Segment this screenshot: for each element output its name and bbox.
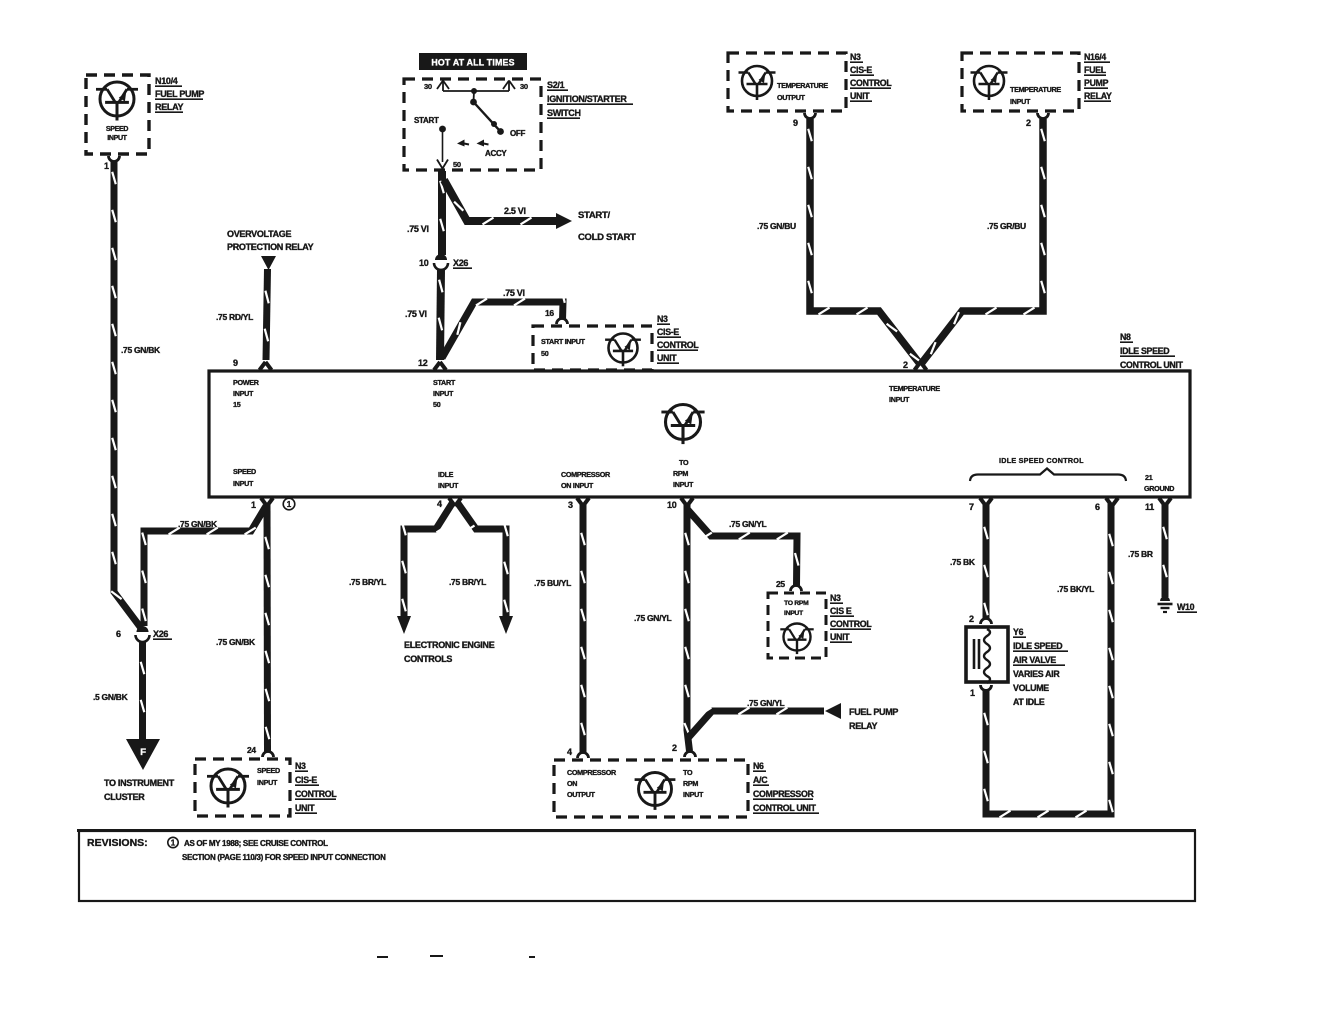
- wire label .75 BU/YL: [534, 578, 571, 588]
- wire .75 GN/BU from N3 pin 9 to idle control unit pin 2: [808, 119, 920, 364]
- svg-text:RPM: RPM: [673, 469, 688, 478]
- wire .75 BU/YL from pin 3 to N6 pin 4: [581, 503, 585, 753]
- svg-text:INPUT: INPUT: [233, 389, 254, 398]
- svg-text:2.5 VI: 2.5 VI: [504, 206, 526, 216]
- S2/1 internal wire bus: [443, 90, 509, 92]
- connector label X26: [453, 258, 472, 268]
- ground label W10: [1177, 602, 1197, 612]
- N3 speed input terminal label: [257, 766, 280, 787]
- wire .75 BR/YL right from pin 4: [457, 502, 508, 617]
- S2/1 terminal 30 arrow left: [437, 81, 449, 92]
- svg-text:X26: X26: [453, 258, 468, 268]
- svg-text:SPEED: SPEED: [257, 766, 280, 775]
- svg-text:START/: START/: [578, 210, 610, 221]
- svg-text:ON INPUT: ON INPUT: [561, 481, 594, 490]
- svg-text:N8: N8: [1120, 332, 1131, 342]
- svg-text:COMPRESSOR: COMPRESSOR: [567, 768, 617, 777]
- svg-text:N3: N3: [850, 52, 861, 62]
- N3 start input terminal label: [541, 337, 586, 358]
- wire label .75 BR/YL right: [449, 577, 486, 587]
- arrow F to instrument cluster: [126, 739, 160, 770]
- svg-text:INPUT: INPUT: [1010, 97, 1031, 106]
- svg-text:START INPUT: START INPUT: [541, 337, 586, 346]
- svg-text:16: 16: [545, 308, 554, 318]
- svg-text:SPEED: SPEED: [233, 467, 256, 476]
- wire .75 BR from pin 11 to ground W10: [1163, 503, 1167, 597]
- svg-text:OFF: OFF: [510, 129, 526, 138]
- svg-text:X26: X26: [153, 629, 168, 639]
- control unit N3 CIS-E temperature output (dashed box): [728, 53, 846, 111]
- X26 lower pin label 6: [116, 629, 121, 639]
- svg-text:INPUT: INPUT: [784, 610, 804, 617]
- svg-text:N10/4: N10/4: [155, 76, 178, 86]
- control unit N3 CIS-E rpm input (dashed box): [768, 593, 826, 658]
- connector label X26 lower: [153, 629, 172, 639]
- svg-text:IGNITION/STARTER: IGNITION/STARTER: [547, 94, 627, 104]
- svg-text:.75 BK/YL: .75 BK/YL: [1057, 584, 1094, 594]
- svg-text:.75 GN/BK: .75 GN/BK: [178, 519, 218, 529]
- N3 speed input internal symbol: [207, 769, 249, 808]
- wire .75 BK/YL loop from Y6 pin 1 to pin 6: [984, 503, 1113, 817]
- wire label .75 GN/YL fuel pump: [747, 698, 785, 708]
- node label OVERVOLTAGE PROTECTION RELAY: [227, 229, 314, 252]
- Y6 armature bars: [974, 639, 979, 669]
- svg-text:PROTECTION RELAY: PROTECTION RELAY: [227, 242, 314, 252]
- control unit N3 CIS-E start input (dashed box): [533, 326, 652, 370]
- svg-text:COMPRESSOR: COMPRESSOR: [561, 470, 611, 479]
- N3 temperature output terminal label: [777, 81, 828, 102]
- svg-text:.75 GN/BK: .75 GN/BK: [121, 345, 161, 355]
- arrow right to electronic engine controls: [499, 616, 513, 634]
- svg-text:N3: N3: [295, 761, 306, 771]
- svg-text:N6: N6: [753, 761, 764, 771]
- wire label .75 BK/YL: [1057, 584, 1094, 594]
- svg-text:.75 GN/YL: .75 GN/YL: [747, 698, 785, 708]
- svg-text:INPUT: INPUT: [257, 778, 278, 787]
- wire label .75 VI lower: [405, 309, 427, 319]
- N8 terminal label 21 GROUND: [1144, 473, 1174, 493]
- svg-text:COLD START: COLD START: [578, 232, 636, 243]
- pin 7 of N8 (idle speed control): [969, 498, 992, 512]
- svg-text:UNIT: UNIT: [850, 91, 870, 101]
- svg-text:RELAY: RELAY: [849, 721, 877, 731]
- svg-text:TO INSTRUMENT: TO INSTRUMENT: [104, 778, 175, 788]
- control unit N8 idle speed control unit (main box): [209, 371, 1190, 497]
- svg-text:1: 1: [287, 500, 292, 509]
- pin 9 of N3 temperature output: [793, 113, 816, 128]
- svg-text:TEMPERATURE: TEMPERATURE: [889, 384, 940, 393]
- node label ELECTRONIC ENGINE CONTROLS: [404, 640, 495, 664]
- svg-text:1: 1: [970, 688, 975, 698]
- svg-text:COMPRESSOR: COMPRESSOR: [753, 789, 814, 799]
- svg-text:PUMP: PUMP: [1084, 78, 1109, 88]
- svg-text:ON: ON: [567, 779, 577, 788]
- wire label .75 RD/YL: [216, 312, 253, 322]
- pin 10 of N8 (to rpm input): [667, 498, 693, 510]
- wire .75 GN/BK from pin 1 to N3 pin 24: [265, 503, 269, 752]
- svg-text:GROUND: GROUND: [1144, 484, 1174, 493]
- wire label .75 GN/BK branch: [178, 519, 218, 529]
- wire label .75 GN/BK to pin 24: [216, 637, 256, 647]
- N3 temperature output internal symbol: [739, 66, 776, 100]
- Y6 coil winding: [984, 629, 990, 683]
- svg-text:INPUT: INPUT: [683, 790, 704, 799]
- node label START/COLD START: [578, 210, 636, 243]
- svg-text:RELAY: RELAY: [1084, 91, 1112, 101]
- wire label .75 VI branch: [503, 288, 525, 298]
- svg-text:9: 9: [793, 118, 798, 128]
- pin 25 of N3 rpm input: [776, 579, 802, 591]
- N8 terminal label SPEED INPUT: [233, 467, 256, 488]
- svg-text:OVERVOLTAGE: OVERVOLTAGE: [227, 229, 292, 239]
- node label FUEL PUMP RELAY: [849, 707, 898, 731]
- N6 terminal label COMPRESSOR ON OUTPUT: [567, 768, 617, 799]
- svg-text:CONTROL: CONTROL: [657, 340, 699, 350]
- N8 terminal label COMPRESSOR ON INPUT: [561, 470, 611, 490]
- svg-text:.75 GN/BU: .75 GN/BU: [757, 221, 796, 231]
- svg-text:11: 11: [1145, 502, 1154, 512]
- wire branch .75 GN/YL to N3 pin 25: [688, 510, 799, 586]
- arrow from fuel pump relay: [825, 703, 841, 719]
- svg-text:2: 2: [903, 360, 908, 370]
- wire .75 RD/YL to control unit pin 9: [265, 269, 269, 360]
- svg-text:CIS-E: CIS-E: [657, 327, 679, 337]
- wire .5 GN/BK from X26 to instrument cluster: [141, 642, 145, 740]
- wire stem into pin 9: [0, 0, 1, 1]
- wire .75 GN/YL from pin 10 to N6 pin 2: [684, 503, 689, 751]
- relay N10/4 fuel pump relay (dashed box): [86, 75, 149, 154]
- svg-text:.75 BR: .75 BR: [1128, 549, 1153, 559]
- svg-text:REVISIONS:: REVISIONS:: [87, 837, 148, 849]
- svg-text:.75 VI: .75 VI: [405, 309, 427, 319]
- svg-text:N3: N3: [830, 593, 841, 603]
- svg-text:.5 GN/BK: .5 GN/BK: [93, 692, 129, 702]
- wire label .5 GN/BK: [93, 692, 129, 702]
- switch S2/1 ignition/starter switch (dashed box): [404, 79, 541, 170]
- S2/1 rotor contact: [470, 88, 504, 135]
- S2/1 ACCY contact marks: [457, 140, 489, 147]
- pin 2 of N6: [672, 743, 696, 757]
- svg-text:POWER: POWER: [233, 378, 260, 387]
- svg-text:.75 BU/YL: .75 BU/YL: [534, 578, 571, 588]
- N8 terminal label POWER INPUT 15: [233, 378, 260, 409]
- S2/1 label 30 right: [520, 82, 528, 91]
- power label HOT AT ALL TIMES: [419, 53, 527, 70]
- svg-text:IDLE: IDLE: [438, 470, 454, 479]
- svg-text:6: 6: [116, 629, 121, 639]
- svg-text:INPUT: INPUT: [107, 135, 128, 142]
- pin 1 of N10/4: [104, 156, 120, 171]
- svg-text:CLUSTER: CLUSTER: [104, 792, 145, 802]
- svg-text:VARIES AIR: VARIES AIR: [1013, 669, 1060, 679]
- connector X26 on start wire: [434, 254, 448, 270]
- svg-text:N16/4: N16/4: [1084, 52, 1106, 62]
- svg-text:1: 1: [251, 500, 256, 510]
- pin 3 of N8 (compressor on input): [568, 498, 589, 510]
- svg-text:TEMPERATURE: TEMPERATURE: [1010, 85, 1061, 94]
- svg-text:4: 4: [567, 747, 572, 757]
- svg-text:30: 30: [424, 82, 432, 91]
- relay N16/4 temperature input (dashed box): [962, 53, 1079, 111]
- pin 2 of N8 (temperature input): [903, 360, 927, 370]
- N8 label IDLE SPEED CONTROL with brace: [970, 456, 1126, 481]
- wire label .75 BK: [950, 557, 976, 567]
- svg-text:.75 GN/BK: .75 GN/BK: [216, 637, 256, 647]
- wire .75 GN/BK branch from pin 1 to X26: [142, 506, 266, 626]
- svg-text:.75 VI: .75 VI: [407, 224, 429, 234]
- svg-text:TO RPM: TO RPM: [784, 600, 809, 607]
- valve Y6 idle speed air valve (box): [966, 627, 1008, 682]
- svg-text:VOLUME: VOLUME: [1013, 683, 1049, 693]
- pin 6 of N8 (idle speed control): [1095, 498, 1118, 512]
- wire .75 BK from pin 7 to Y6 pin 2: [984, 503, 988, 620]
- svg-text:4: 4: [437, 499, 442, 509]
- svg-text:2: 2: [1026, 118, 1031, 128]
- N8 terminal label TO RPM INPUT: [673, 458, 694, 489]
- svg-text:HOT AT ALL TIMES: HOT AT ALL TIMES: [431, 58, 514, 68]
- label Y6 IDLE SPEED AIR VALVE: [1013, 627, 1068, 707]
- arrow from overvoltage protection relay: [261, 256, 276, 270]
- S2/1 label 50: [453, 160, 461, 169]
- svg-text:INPUT: INPUT: [438, 481, 459, 490]
- svg-text:CIS-E: CIS-E: [295, 775, 317, 785]
- svg-text:UNIT: UNIT: [657, 353, 677, 363]
- S2/1 label ACCY: [485, 149, 507, 158]
- ground W10: [1158, 596, 1173, 612]
- wire label .75 BR/YL left: [349, 577, 386, 587]
- svg-text:FUEL: FUEL: [1084, 65, 1107, 75]
- svg-text:30: 30: [520, 82, 528, 91]
- svg-text:2: 2: [672, 743, 677, 753]
- pin 2 of N16/4: [1026, 113, 1049, 128]
- svg-text:OUTPUT: OUTPUT: [777, 93, 806, 102]
- label N3 CIS-E CONTROL UNIT (speed input): [295, 761, 337, 813]
- wire label .75 BR: [1128, 549, 1153, 559]
- pin 24 of N3 speed input: [247, 745, 274, 757]
- wire label .75 GN/BU: [757, 221, 796, 231]
- wire .75 VI from X26 to control unit pin 12: [439, 270, 443, 360]
- svg-text:.75 VI: .75 VI: [503, 288, 525, 298]
- svg-text:.75 BR/YL: .75 BR/YL: [449, 577, 486, 587]
- svg-text:TEMPERATURE: TEMPERATURE: [777, 81, 828, 90]
- svg-text:W10: W10: [1177, 602, 1195, 612]
- svg-text:SPEED: SPEED: [106, 126, 128, 133]
- svg-text:AIR VALVE: AIR VALVE: [1013, 655, 1056, 665]
- svg-text:ACCY: ACCY: [485, 149, 507, 158]
- wire .75 VI from S2/1 terminal 50 to X26: [440, 171, 444, 255]
- N3 rpm input internal symbol: [780, 624, 813, 655]
- svg-text:50: 50: [433, 400, 441, 409]
- wire label .75 GN/YL main: [634, 613, 672, 623]
- N8 dashed top-right edge detail: [1113, 370, 1188, 373]
- svg-text:N3: N3: [657, 314, 668, 324]
- svg-text:.75 GR/BU: .75 GR/BU: [987, 221, 1026, 231]
- svg-text:IDLE SPEED: IDLE SPEED: [1013, 641, 1062, 651]
- svg-text:FUEL PUMP: FUEL PUMP: [155, 89, 204, 99]
- svg-text:IDLE SPEED CONTROL: IDLE SPEED CONTROL: [999, 456, 1084, 465]
- relay N10/4 label N10/4 FUEL PUMP RELAY: [155, 76, 204, 112]
- S2/1 wire start contact to terminal 50: [437, 131, 448, 169]
- svg-text:INPUT: INPUT: [233, 479, 254, 488]
- pin 4 of N6: [567, 747, 589, 758]
- pin 12 of N8 (start input): [418, 358, 446, 370]
- svg-text:START: START: [433, 378, 456, 387]
- S2/1 label S2/1 IGNITION/STARTER SWITCH: [547, 80, 633, 118]
- svg-text:15: 15: [233, 400, 241, 409]
- svg-text:UNIT: UNIT: [295, 803, 315, 813]
- svg-text:2: 2: [969, 614, 974, 624]
- svg-text:50: 50: [541, 349, 549, 358]
- svg-text:INPUT: INPUT: [889, 395, 910, 404]
- relay N10/4 terminal label SPEED INPUT: [106, 126, 128, 142]
- pin 1 of Y6: [970, 685, 992, 698]
- svg-text:CIS-E: CIS-E: [850, 65, 872, 75]
- wire label .75 VI upper: [407, 224, 429, 234]
- svg-text:.75 RD/YL: .75 RD/YL: [216, 312, 253, 322]
- N16/4 temperature input internal symbol: [971, 66, 1008, 100]
- svg-text:7: 7: [969, 502, 974, 512]
- svg-text:SWITCH: SWITCH: [547, 108, 581, 118]
- svg-text:CONTROL UNIT: CONTROL UNIT: [753, 803, 817, 813]
- pin 11 of N8 (ground): [1145, 498, 1171, 512]
- wire branch .75 GN/YL from fuel pump relay: [688, 708, 824, 738]
- S2/1 START contact dot: [439, 126, 446, 133]
- N8 terminal label TEMPERATURE INPUT: [889, 384, 940, 404]
- svg-text:9: 9: [233, 358, 238, 368]
- arrow left to electronic engine controls: [397, 616, 411, 634]
- svg-text:21: 21: [1145, 473, 1153, 482]
- N8 terminal label START INPUT 50: [433, 378, 456, 409]
- svg-text:TO: TO: [679, 458, 689, 467]
- svg-text:INPUT: INPUT: [433, 389, 454, 398]
- svg-text:CONTROL: CONTROL: [850, 78, 892, 88]
- svg-text:ELECTRONIC ENGINE: ELECTRONIC ENGINE: [404, 640, 495, 650]
- label N3 CIS-E CONTROL UNIT (temperature output): [850, 52, 892, 101]
- wire branch .75 VI to N3 start input pin 16: [442, 290, 565, 358]
- wire .75 GR/BU from N16/4 pin 2 to idle control unit pin 2: [921, 119, 1045, 364]
- wire .75 BR/YL left from pin 4: [402, 502, 453, 617]
- svg-text:INPUT: INPUT: [673, 480, 694, 489]
- wire label 2.5 VI: [504, 206, 526, 216]
- svg-text:.75 GN/YL: .75 GN/YL: [634, 613, 672, 623]
- wire label .75 GR/BU: [987, 221, 1026, 231]
- N16/4 temperature input terminal label: [1010, 85, 1061, 106]
- label N3 CIS-E CONTROL UNIT (start input): [657, 314, 699, 363]
- X26 pin label 10: [419, 258, 429, 268]
- svg-text:.75 BK: .75 BK: [950, 557, 976, 567]
- label N8 IDLE SPEED CONTROL UNIT: [1120, 332, 1190, 370]
- svg-text:1: 1: [104, 161, 109, 171]
- svg-text:CONTROL: CONTROL: [830, 619, 872, 629]
- control unit N6 A/C compressor control unit (dashed box): [554, 760, 748, 817]
- svg-text:S2/1: S2/1: [547, 80, 565, 90]
- svg-text:24: 24: [247, 745, 256, 755]
- pin 2 of Y6: [969, 614, 992, 624]
- svg-text:50: 50: [453, 160, 461, 169]
- svg-text:FUEL PUMP: FUEL PUMP: [849, 707, 898, 717]
- pin 1 of N8 (speed input): [251, 498, 273, 510]
- svg-text:UNIT: UNIT: [830, 632, 850, 642]
- svg-text:SECTION (PAGE 110/3) FOR SPEED: SECTION (PAGE 110/3) FOR SPEED INPUT CON…: [182, 853, 386, 862]
- S2/1 label START: [414, 116, 439, 125]
- svg-text:1: 1: [171, 839, 176, 848]
- N6 internal symbol: [635, 773, 676, 810]
- svg-text:TO: TO: [683, 768, 693, 777]
- svg-text:CIS E: CIS E: [830, 606, 852, 616]
- svg-text:.75 GN/YL: .75 GN/YL: [729, 519, 767, 529]
- svg-text:RPM: RPM: [683, 779, 698, 788]
- revisions box: [77, 831, 1196, 902]
- svg-text:25: 25: [776, 579, 785, 589]
- S2/1 terminal 30 arrow right: [503, 81, 515, 92]
- label N6 A/C COMPRESSOR CONTROL UNIT: [753, 761, 819, 813]
- svg-text:AS OF MY 1988; SEE CRUISE CONT: AS OF MY 1988; SEE CRUISE CONTROL: [184, 839, 328, 848]
- N8 internal symbol: [661, 405, 704, 445]
- N3 start input internal symbol: [605, 334, 641, 367]
- svg-text:.75 BR/YL: .75 BR/YL: [349, 577, 386, 587]
- node label TO INSTRUMENT CLUSTER: [104, 778, 175, 802]
- relay N10/4 internal symbol: [96, 82, 138, 121]
- revisions text: [87, 837, 386, 862]
- N3 rpm input terminal label: [784, 600, 809, 617]
- N8 terminal label IDLE INPUT: [438, 470, 459, 490]
- wire label .75 GN/BK: [121, 345, 161, 355]
- svg-text:CONTROLS: CONTROLS: [404, 654, 452, 664]
- wire branch 2.5 VI to start/cold start: [444, 180, 556, 224]
- connector X26 lower: [136, 626, 150, 642]
- S2/1 label 30 left: [424, 82, 432, 91]
- N6 terminal label TO RPM INPUT: [683, 768, 704, 799]
- svg-text:Y6: Y6: [1013, 627, 1024, 637]
- label N16/4 FUEL PUMP RELAY: [1084, 52, 1112, 101]
- svg-text:6: 6: [1095, 502, 1100, 512]
- wire label .75 GN/YL branch: [729, 519, 767, 529]
- wire .75 GN/BK from N10/4 pin 1 to connector X26: [111, 162, 141, 628]
- svg-text:OUTPUT: OUTPUT: [567, 790, 596, 799]
- revision mark circled 1: [283, 498, 295, 510]
- svg-text:AT IDLE: AT IDLE: [1013, 697, 1045, 707]
- svg-text:10: 10: [667, 500, 677, 510]
- svg-text:3: 3: [568, 500, 573, 510]
- svg-text:RELAY: RELAY: [155, 102, 183, 112]
- svg-text:12: 12: [418, 358, 428, 368]
- scan marks: [377, 956, 535, 957]
- label N3 CIS E CONTROL UNIT (rpm input): [830, 593, 872, 642]
- svg-text:F: F: [140, 747, 146, 758]
- svg-text:START: START: [414, 116, 439, 125]
- pin 4 of N8 (idle input): [437, 498, 461, 509]
- S2/1 label OFF: [510, 129, 526, 138]
- arrow to START/COLD START: [556, 213, 572, 229]
- pin 9 of N8 (power input): [233, 358, 272, 370]
- svg-text:10: 10: [419, 258, 429, 268]
- svg-text:A/C: A/C: [753, 775, 768, 785]
- pin 16 of N3 start input: [545, 308, 568, 324]
- svg-text:CONTROL: CONTROL: [295, 789, 337, 799]
- svg-text:IDLE SPEED: IDLE SPEED: [1120, 346, 1169, 356]
- control unit N3 CIS-E speed input (dashed box): [195, 759, 290, 816]
- svg-text:CONTROL UNIT: CONTROL UNIT: [1120, 360, 1184, 370]
